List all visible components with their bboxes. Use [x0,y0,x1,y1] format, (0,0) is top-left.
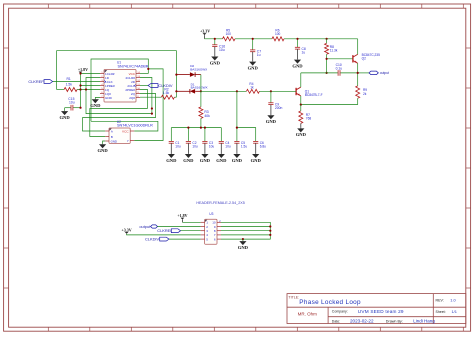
wire 1PRE# tie high [81,85,101,87]
junction dots top rail [214,38,216,40]
wire R1 left lead [57,89,65,91]
wire R2 to 2Q# pin [140,96,161,98]
ground below R7 [300,127,302,128]
capacitor C3 10u [202,140,207,142]
wire row C below U1 to U2 A [83,118,156,131]
svg-text:1k: 1k [250,85,254,89]
resistor R4 1k [246,89,259,93]
wire header pin2 [158,226,201,228]
wire output row [301,72,338,74]
svg-text:BC847B-7-F: BC847B-7-F [305,93,323,97]
header U3 body [205,219,217,244]
svg-text:2k: 2k [363,92,367,96]
wire feedback loop2 [91,59,148,121]
svg-text:GND: GND [266,119,277,124]
header pin 5 / pin 6 [201,238,205,240]
ground below C1 [170,143,172,154]
resistor R5 100 [223,37,236,41]
svg-text:GND: GND [200,158,211,163]
resistor R2 1.5k [161,95,174,99]
svg-text:768: 768 [306,117,312,121]
svg-text:10u: 10u [209,145,215,149]
resistor R7 768 [299,111,303,124]
svg-text:U3: U3 [209,212,213,216]
svg-text:GND: GND [183,158,194,163]
svg-text:SN74LVC74ADBR: SN74LVC74ADBR [118,65,149,69]
svg-text:REV:: REV: [436,299,444,303]
svg-text:Date:: Date: [332,319,340,323]
svg-text:GND: GND [111,140,117,144]
svg-text:11.3k: 11.3k [330,49,338,53]
wire +3.3V rail [205,38,223,40]
svg-text:10u: 10u [219,48,225,52]
capacitor C5 1.5u [234,140,239,142]
ground below C7 [252,52,254,62]
net port CLKDIV [148,84,158,88]
svg-text:GND: GND [59,115,70,120]
svg-text:BAS16GWX: BAS16GWX [190,68,207,72]
svg-text:TITLE:: TITLE: [288,295,299,299]
svg-text:GND: GND [90,103,101,108]
svg-text:BAS16GWX: BAS16GWX [191,86,208,90]
capacitor C6 6.8u [253,140,258,142]
wire row D below U1 to U2 VCC [91,121,158,131]
U1 clock pin marks [104,80,106,82]
svg-text:Drawn By:: Drawn By: [386,319,403,323]
wire +1.8V vertical [80,74,82,108]
svg-text:GND: GND [105,96,113,100]
svg-text:+3.3V: +3.3V [122,227,132,232]
ground below C9 [270,105,272,115]
svg-text:GND: GND [210,60,221,65]
wire emitter bottom rail [301,104,358,106]
U2 pins [105,130,109,132]
svg-text:Phase Locked Loop: Phase Locked Loop [299,299,361,306]
svg-text:Company:: Company: [332,310,348,314]
capacitor C8 1u [297,39,299,48]
capacitor C1 10u [169,140,174,142]
capacitor C2 10u [186,140,191,142]
svg-text:CLKREF: CLKREF [157,228,173,233]
svg-text:GND: GND [97,148,108,153]
svg-text:Lindi Hang: Lindi Hang [413,319,435,324]
capacitor C16 10u [214,39,216,45]
capacitor C15 10u [73,107,81,109]
header pin 4 / pin 7 [201,234,205,236]
title block [287,294,466,324]
wire row B below U1 to 1D [86,78,152,114]
ground below C5 [236,143,238,154]
svg-text:Sheet:: Sheet: [436,310,446,314]
junction dots diode rows [175,74,177,76]
diode D2 BAS16GWX [176,74,190,76]
svg-text:GND: GND [296,132,307,137]
svg-text:CLKREF: CLKREF [28,79,44,84]
wire header pin4 [127,234,201,235]
U1 left pins [100,73,104,75]
svg-text:output: output [139,224,151,229]
svg-text:SN74LVC1G00DRLR: SN74LVC1G00DRLR [117,124,153,128]
svg-text:CLKDIV: CLKDIV [145,237,159,242]
svg-text:1.5k: 1.5k [163,91,170,95]
wire Q2 emitter down [357,63,359,73]
wire header pin5 [169,238,201,240]
svg-text:GND: GND [216,158,227,163]
svg-text:GND: GND [238,245,249,250]
svg-text:Q2: Q2 [362,57,366,61]
nand gate U2 SN74LVC1G00DRLR body [109,128,130,143]
svg-text:200n: 200n [275,106,283,110]
svg-text:B: B [111,135,113,139]
wire header pin1 [182,221,200,223]
resistor R3 40k [200,91,202,107]
svg-text:100: 100 [226,32,232,36]
resistor R9 2k [357,73,359,86]
ground below C15 [64,108,66,111]
svg-text:10u: 10u [192,145,198,149]
ground below C3 [204,143,206,154]
ground below C6 [255,143,257,154]
svg-text:+1.8V: +1.8V [78,67,88,72]
svg-text:HEADER-FEMALE-2.54_2X5: HEADER-FEMALE-2.54_2X5 [196,201,244,205]
svg-text:UVM SEED team 29: UVM SEED team 29 [358,309,404,314]
svg-text:Y: Y [127,139,129,143]
wire 1CLR# tie high [81,73,101,75]
wire header pin3 [181,230,201,232]
IC U1 SN74LVC74ADBR dual flip-flop body [104,70,136,103]
wire Q1 collector up to output row [300,73,302,87]
wire 2Q feedback [140,94,156,118]
ground below C16 [214,47,216,57]
resistor R1 1.5k [64,88,77,92]
capacitor C10 0.1u [337,70,339,76]
transistor Q1 BC847B-7-F [295,88,297,95]
svg-text:1.0: 1.0 [450,298,456,303]
svg-text:1.5u: 1.5u [241,145,247,149]
resistor R6 100 [272,37,284,41]
resistor R8 11.3k [326,39,328,44]
wire D2 cathode down to D1 row [200,75,202,92]
svg-text:0.1u: 0.1u [336,67,343,71]
wire left capacitor bus [171,127,221,129]
svg-text:1u: 1u [302,50,306,54]
svg-text:+1.8V: +1.8V [177,213,187,218]
svg-text:100: 100 [275,32,281,36]
wire Q1 emitter down [300,96,302,105]
capacitor C7 1u [252,39,254,50]
junction dots around U1 [79,72,81,74]
svg-text:GND: GND [292,63,303,68]
svg-text:MR. Ohm: MR. Ohm [298,311,318,316]
svg-text:10u: 10u [69,101,75,105]
svg-text:10u: 10u [225,145,231,149]
svg-text:GND: GND [232,158,243,163]
header pin 1 / pin 10 [201,221,205,223]
wire feedback loop1 top [57,51,177,90]
ground at U1 GND pin [95,98,100,100]
wire CLKREF net [53,81,100,83]
ground below C8 [297,49,299,59]
wire VCC branch to U2 Y [134,69,163,141]
wire header right side tie [221,222,270,239]
svg-text:1.5k: 1.5k [66,82,73,86]
wire 2CLK to CLKDIV port [140,85,148,87]
output port [358,72,370,74]
ground below U2 [103,141,106,144]
svg-text:output: output [380,71,389,75]
svg-text:6.8u: 6.8u [260,145,266,149]
svg-text:+3.3V: +3.3V [200,29,210,34]
svg-text:VCC: VCC [122,129,129,133]
diode D1 BAS16GWX [176,90,190,92]
header pin 2 / pin 9 [201,226,205,228]
svg-text:2Q#: 2Q# [129,96,135,100]
wire 2CLR# feedback [140,78,152,114]
ground at header [242,238,244,240]
svg-text:2023-02-22: 2023-02-22 [350,319,374,324]
svg-text:GND: GND [251,158,262,163]
svg-text:40k: 40k [204,114,210,118]
wire row A below U1 [90,109,148,137]
wire R8 to Q2 base [327,58,353,60]
wire R2 right lead [174,96,176,98]
svg-text:1/1: 1/1 [452,309,457,314]
capacitor C4 10u [219,140,224,142]
svg-text:A: A [111,129,113,133]
svg-text:1u: 1u [257,53,261,57]
wire R4 to Q1 base [259,90,296,92]
capacitor C9 200n [270,91,272,103]
svg-text:GND: GND [166,158,177,163]
ground below C4 [220,143,222,154]
transistor Q2 BC847C,235 [352,55,354,62]
wire 2PRE# feedback [140,90,148,109]
wire R1 row to 1Q [77,89,100,91]
svg-text:GND: GND [248,65,259,70]
wire right capacitor bus from R4 node [237,91,256,141]
svg-text:R1: R1 [67,77,71,81]
wire loop1 right segment to R2 [175,75,177,98]
header pin 3 / pin 8 [201,230,205,232]
wire D1 row to R4 [201,90,247,92]
svg-text:10u: 10u [175,145,181,149]
ground below C2 [187,143,189,154]
wire U1 VCC pin row [140,73,148,75]
